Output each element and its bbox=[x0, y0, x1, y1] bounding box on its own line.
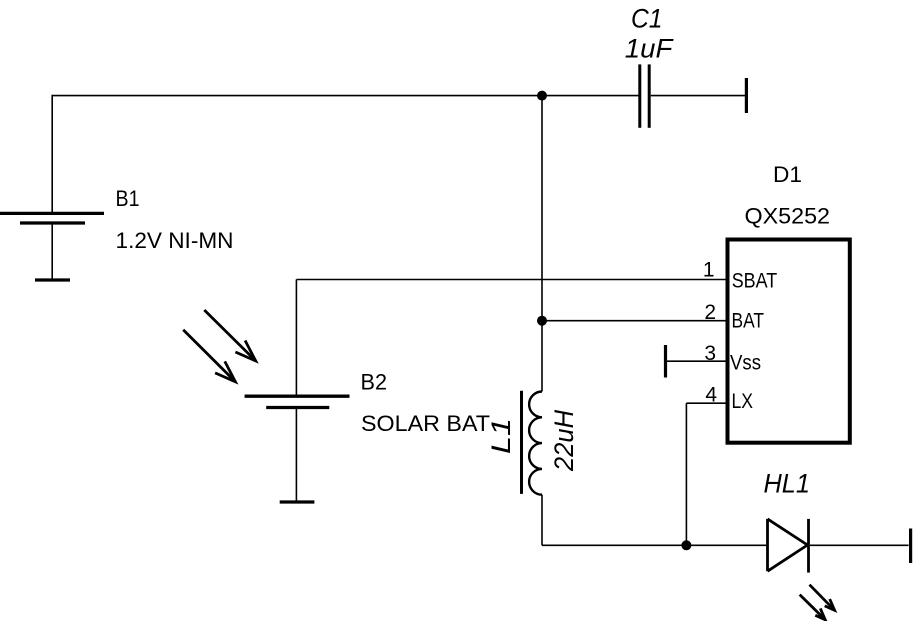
IC U D1 QX5252 box bbox=[728, 240, 850, 443]
svg-text:L1: L1 bbox=[486, 418, 516, 454]
wire L1 bottom lead bbox=[541, 495, 543, 546]
node junction dot BAT bbox=[537, 316, 547, 326]
svg-text:SOLAR BAT: SOLAR BAT bbox=[361, 411, 490, 436]
wire pin3 Vss bbox=[667, 360, 727, 362]
svg-text:BAT: BAT bbox=[732, 310, 765, 333]
wire bottom net to LED bbox=[542, 544, 768, 546]
svg-text:LX: LX bbox=[732, 390, 754, 413]
wire pin4 LX bbox=[686, 402, 727, 404]
svg-text:B1: B1 bbox=[116, 186, 140, 211]
svg-text:Vss: Vss bbox=[730, 352, 761, 375]
wire pin2 BAT bbox=[542, 320, 727, 322]
svg-text:4: 4 bbox=[705, 383, 717, 406]
svg-text:QX5252: QX5252 bbox=[745, 204, 831, 229]
svg-text:D1: D1 bbox=[773, 162, 802, 187]
wire LX down lead bbox=[685, 403, 687, 545]
LED light arrow 1 bbox=[810, 585, 835, 611]
LED light arrow 2 bbox=[800, 595, 826, 620]
wire pin1 SBAT bbox=[296, 279, 727, 281]
sunlight arrow 1 on B2 bbox=[204, 310, 255, 361]
terminal bar Vss bbox=[664, 345, 667, 378]
svg-text:1uF: 1uF bbox=[625, 33, 674, 63]
svg-text:SBAT: SBAT bbox=[732, 270, 778, 293]
wire B2 top lead bbox=[295, 280, 297, 395]
LED HL1 bbox=[768, 519, 809, 573]
battery B2 solar bbox=[245, 396, 350, 502]
sunlight arrow 2 on B2 bbox=[183, 330, 235, 382]
svg-text:2: 2 bbox=[704, 301, 716, 324]
wire B1 positive lead bbox=[51, 95, 53, 213]
svg-text:3: 3 bbox=[704, 342, 716, 365]
node junction dot LX net bbox=[681, 540, 691, 550]
node junction dot top bbox=[537, 91, 547, 101]
terminal bar right of C1 bbox=[745, 78, 748, 113]
inductor L1 bbox=[522, 391, 543, 495]
wire top net B1 to C1 bbox=[52, 95, 639, 97]
wire center vertical net bbox=[541, 96, 543, 392]
wire LED cathode lead bbox=[810, 544, 909, 546]
svg-text:HL1: HL1 bbox=[764, 469, 811, 499]
battery B1 bbox=[0, 213, 104, 280]
svg-text:22uH: 22uH bbox=[549, 410, 579, 472]
capacitor C1 bbox=[640, 64, 649, 127]
svg-text:B2: B2 bbox=[361, 370, 388, 395]
terminal bar right of LED bbox=[909, 529, 912, 564]
svg-text:1: 1 bbox=[703, 259, 715, 282]
wire C1 right lead bbox=[651, 95, 745, 97]
svg-text:C1: C1 bbox=[631, 4, 663, 34]
svg-text:1.2V NI-MN: 1.2V NI-MN bbox=[116, 228, 234, 253]
